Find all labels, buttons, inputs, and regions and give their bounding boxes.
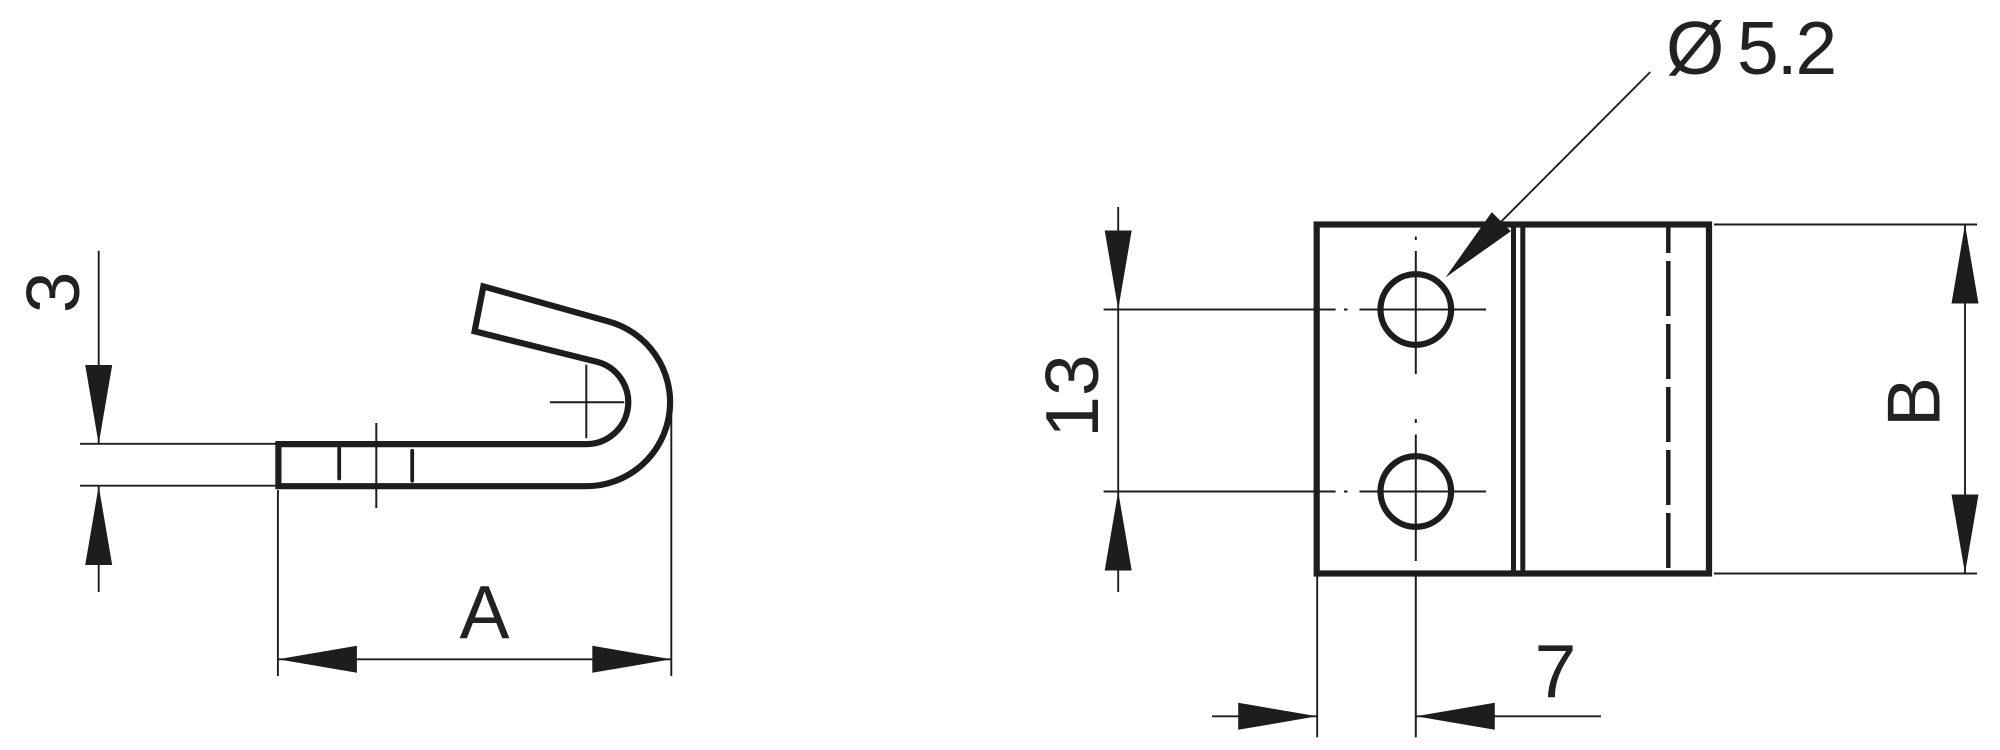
- vertical centerline through holes: [1415, 237, 1417, 738]
- dimension 3 : dimension line lower part: [98, 486, 100, 592]
- svg-text:5.2: 5.2: [1737, 6, 1835, 90]
- dimension 3 : lower arrowhead: [85, 486, 112, 565]
- dimension 13 : upper arrowhead: [1105, 231, 1132, 310]
- svg-text:A: A: [459, 570, 509, 654]
- bend edge line 2: [1520, 225, 1525, 574]
- svg-text:13: 13: [1030, 354, 1114, 437]
- dimension A : left arrowhead: [278, 646, 357, 673]
- svg-text:Ø: Ø: [1666, 6, 1724, 90]
- horizontal centerline hole H2 / extension for 13: [1104, 491, 1486, 493]
- dimension B : dimension line: [1964, 225, 1966, 574]
- bend tick 2 on strip: [410, 451, 414, 481]
- hole H2 (bottom, dia 5.2): [1381, 456, 1452, 527]
- svg-text:B: B: [1872, 377, 1956, 427]
- dimension 7 : dimension line right tail: [1416, 715, 1601, 717]
- arc center cross mark: [550, 401, 625, 403]
- leader line for hole diameter: [1478, 72, 1650, 245]
- leader arrowhead: [1446, 212, 1511, 277]
- strip centerline mark: [375, 423, 377, 508]
- dimension A : dimension line: [278, 658, 671, 660]
- dimension 7 : left arrowhead: [1238, 703, 1317, 730]
- dimension B : lower extension line: [1714, 573, 1977, 575]
- dimension B : upper arrowhead: [1952, 225, 1979, 304]
- dimension 7 : dimension line left tail: [1212, 715, 1317, 717]
- horizontal centerline hole H1 / extension for 13: [1104, 309, 1486, 311]
- dimension 3 : upper arrowhead: [85, 365, 112, 444]
- svg-text:3: 3: [11, 272, 95, 314]
- dimension B : upper extension line: [1714, 224, 1977, 226]
- dimension B : lower arrowhead: [1952, 495, 1979, 574]
- dimension 13 : lower arrowhead: [1105, 492, 1132, 571]
- hidden edge dashed line: [1666, 225, 1671, 573]
- dimension 7 : right arrowhead: [1416, 703, 1495, 730]
- hook outline (side view): [278, 286, 670, 486]
- front plate outline: [1317, 225, 1709, 574]
- bend tick 1 on strip: [337, 444, 341, 479]
- dimension 13 : dimension line: [1117, 207, 1119, 592]
- hole H1 (top, dia 5.2): [1381, 274, 1452, 345]
- dimension 3 : extension lines: [80, 443, 278, 445]
- dimension A : left extension line: [277, 490, 279, 676]
- dimension A : right arrowhead: [592, 646, 671, 673]
- bend edge line 1: [1511, 225, 1516, 574]
- dimension 3 : dimension line upper part: [98, 251, 100, 444]
- dimension A : right extension line: [670, 410, 672, 676]
- svg-text:7: 7: [1535, 629, 1577, 713]
- dimension 7 : left extension line: [1316, 577, 1318, 738]
